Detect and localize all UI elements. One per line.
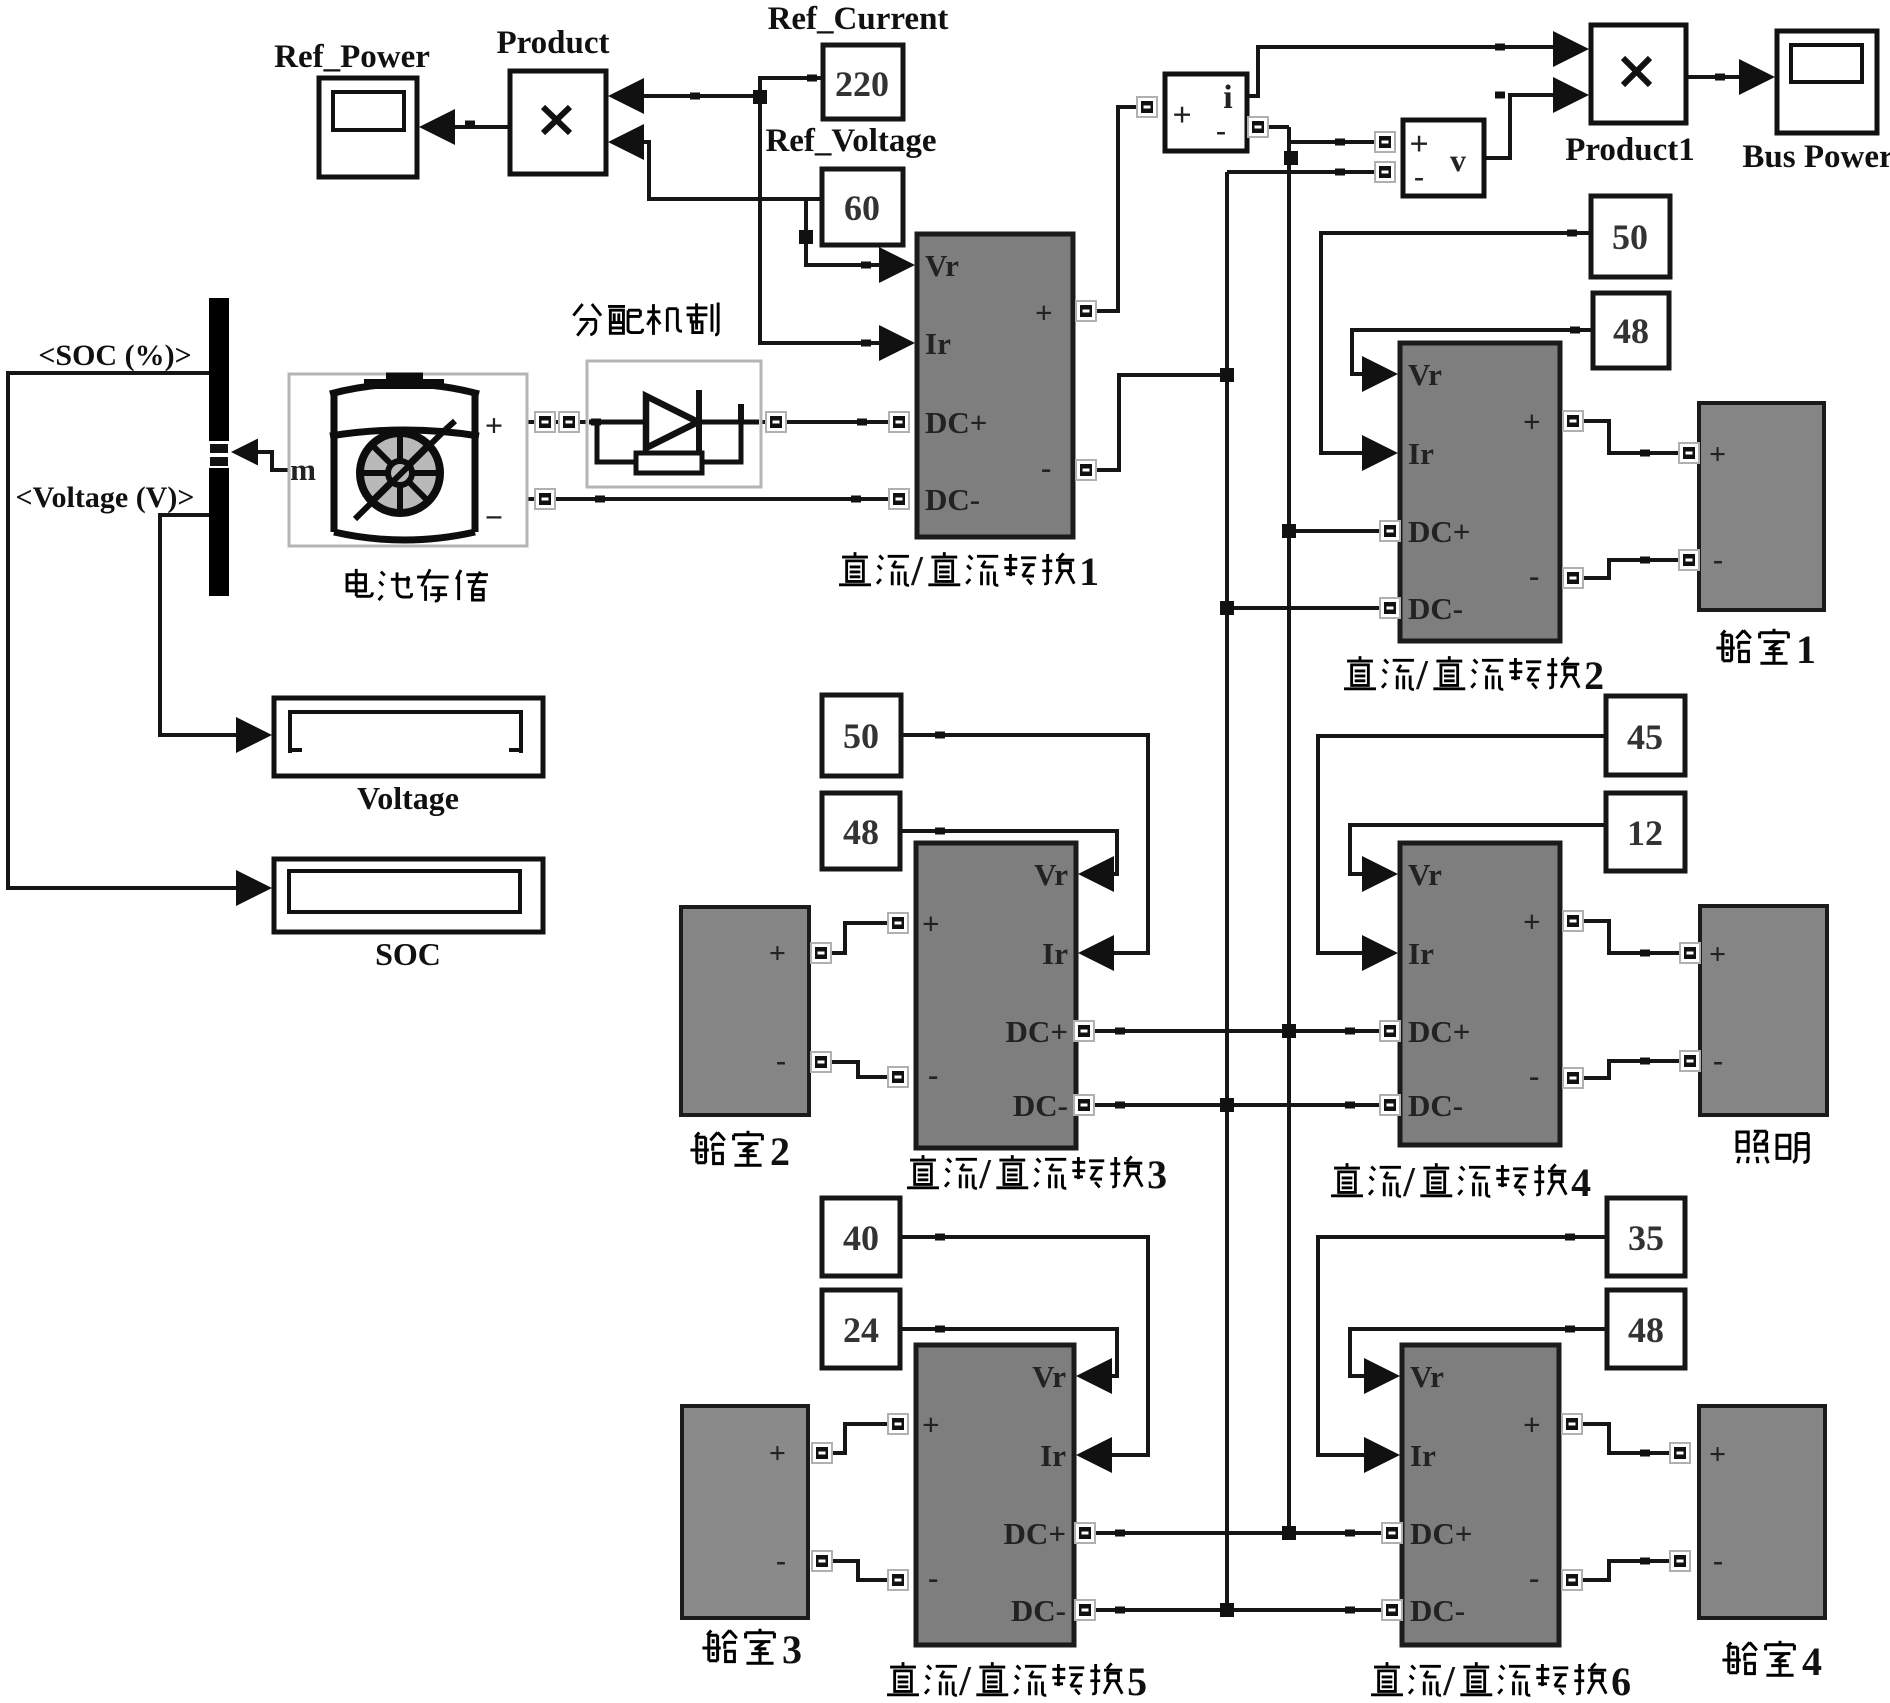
wire conv2 + to cabin1: [1581, 421, 1681, 453]
svg-text:-: -: [1041, 450, 1051, 485]
svg-text:DC+: DC+: [1408, 1014, 1470, 1049]
svg-text:DC-: DC-: [1408, 591, 1463, 626]
cabin4 pin labels: [1709, 1438, 1726, 1577]
svg-text:/: /: [910, 549, 924, 595]
wire Product output to Ref_Power scope: [448, 125, 510, 129]
wire branch junction to Product top input: [634, 94, 760, 98]
svg-text:-: -: [928, 1560, 938, 1595]
svg-text:i: i: [1223, 79, 1232, 116]
svg-text:m: m: [290, 452, 316, 487]
svg-text:60: 60: [844, 188, 880, 228]
wire tick: [1115, 1028, 1125, 1035]
junction 220 wire to Product: [753, 90, 767, 104]
label cabin4 舱室4: [1722, 1639, 1822, 1684]
bus2 vertical DC+ bus: [1287, 127, 1291, 1533]
junction conv1 minus on bus1: [1220, 368, 1234, 382]
wire i output to Product1 top input: [1247, 47, 1557, 96]
label dcdc5 直流/直流转换5: [887, 1659, 1147, 1703]
port conv3 plus in: [888, 913, 908, 933]
constant 60 Ref_Voltage: [822, 169, 903, 245]
wire tick: [1565, 1326, 1575, 1333]
port cabin3 plus: [812, 1443, 832, 1463]
constant 48 bottom: [1607, 1290, 1685, 1368]
wire v output to Product1 bottom input: [1484, 95, 1557, 158]
constant 50 right: [1591, 196, 1670, 277]
svg-text:-: -: [1529, 1560, 1539, 1595]
wire battery plus to distribution block: [527, 420, 587, 424]
svg-text:+: +: [1035, 295, 1053, 330]
converter block conv6: [1402, 1345, 1559, 1645]
label cabin2 舱室2: [690, 1129, 790, 1174]
wire tick: [1715, 74, 1725, 81]
svg-text:DC-: DC-: [1408, 1088, 1463, 1123]
voltage sensor v: [1403, 120, 1484, 196]
wire bus2 to v plus: [1289, 140, 1377, 144]
wire tick: [1115, 1530, 1125, 1537]
wire tick: [1115, 1607, 1125, 1614]
svg-text:5: 5: [1127, 1659, 1147, 1703]
load block lighting: [1700, 906, 1827, 1115]
wire 12 to conv4 Vr: [1350, 825, 1606, 874]
port conv2 DC-: [1380, 598, 1400, 618]
junction bus1 bottom DC-: [1220, 1603, 1234, 1617]
svg-text:DC+: DC+: [1006, 1014, 1068, 1049]
distribution block outer frame: [587, 361, 761, 487]
svg-text:DC-: DC-: [1410, 1593, 1465, 1628]
arrow conv5 Ir input: [1076, 1437, 1112, 1473]
svg-text:Vr: Vr: [1032, 1359, 1066, 1394]
svg-text:-: -: [1713, 1044, 1723, 1077]
port conv5 minus in: [888, 1570, 908, 1590]
wire tick: [935, 828, 945, 835]
junction bus1 mid DC-: [1220, 1098, 1234, 1112]
arrow conv5 Vr input: [1076, 1358, 1112, 1394]
port conv3 DC+: [1074, 1021, 1094, 1041]
svg-text:Voltage: Voltage: [357, 780, 459, 816]
svg-text:220: 220: [835, 64, 889, 104]
arrow into Bus Power scope: [1739, 59, 1775, 95]
diode and resistor inside distribution block: [589, 390, 759, 473]
constant 12: [1606, 793, 1685, 871]
wire tick: [1565, 1234, 1575, 1241]
port cabin4 minus: [1670, 1551, 1690, 1571]
svg-text:1: 1: [1079, 549, 1099, 594]
wire tick: [935, 1234, 945, 1241]
svg-text:DC-: DC-: [1011, 1593, 1066, 1628]
svg-text:Ir: Ir: [1408, 936, 1434, 971]
constant 40: [822, 1198, 900, 1276]
label lighting 照明: [1737, 1131, 1808, 1163]
wire tick: [465, 121, 475, 128]
wire tick: [1567, 230, 1577, 237]
svg-text:-: -: [776, 1544, 786, 1577]
wire 60 branch down to conv1 Vr: [806, 199, 885, 265]
wire 48b to conv6 Vr: [1350, 1329, 1607, 1376]
constant 24: [822, 1290, 900, 1368]
load block cabin3: [682, 1406, 808, 1618]
port v sensor minus: [1375, 162, 1395, 182]
conv2 pin labels: [1408, 357, 1541, 626]
junction bus2 near v plus: [1284, 151, 1298, 165]
wire Product bottom input from 60: [634, 142, 822, 199]
svg-text:48: 48: [843, 812, 879, 852]
svg-text:35: 35: [1628, 1218, 1664, 1258]
svg-text:6: 6: [1611, 1659, 1631, 1703]
wire cabin2 - to conv3 -: [829, 1062, 890, 1077]
bus selector bar: [208, 298, 230, 596]
svg-text:v: v: [1450, 142, 1466, 178]
svg-text:48: 48: [1628, 1310, 1664, 1350]
arrow conv6 Vr input: [1364, 1358, 1400, 1394]
wire tick: [1335, 169, 1345, 176]
svg-text:-: -: [1713, 1544, 1723, 1577]
conv6 pin labels: [1410, 1359, 1541, 1628]
arrow into Voltage display: [236, 717, 272, 753]
svg-text:+: +: [1709, 438, 1726, 471]
wire tick: [851, 496, 861, 503]
svg-text:/: /: [958, 1659, 972, 1703]
wire tick: [861, 340, 871, 347]
port conv1 DC+: [889, 412, 909, 432]
svg-text:-: -: [1529, 1058, 1539, 1093]
wire 48 mid to conv3 Vr: [900, 831, 1117, 874]
svg-text:Ir: Ir: [1040, 1438, 1066, 1473]
svg-text:4: 4: [1571, 1160, 1591, 1205]
svg-text:/: /: [1442, 1659, 1456, 1703]
svg-text:48: 48: [1613, 311, 1649, 351]
wire 35 to conv6 Ir: [1318, 1237, 1607, 1455]
port conv1 plus out: [1076, 301, 1096, 321]
svg-text:50: 50: [843, 716, 879, 756]
arrow conv3 Ir input: [1078, 935, 1114, 971]
converter block conv3: [916, 843, 1076, 1148]
constant 50 mid: [822, 695, 901, 776]
wire bus2 to conv2 DC+: [1289, 529, 1382, 533]
wire 50 to conv2 Ir: [1321, 233, 1591, 453]
label battery storage 电池存储: [347, 569, 488, 601]
label dcdc1 直流/直流转换1: [839, 549, 1099, 595]
constant 48 mid: [822, 793, 900, 869]
svg-text:/: /: [1415, 653, 1429, 699]
arrow conv2 Vr input: [1362, 356, 1398, 392]
wire conv6 - to cabin4: [1580, 1561, 1672, 1580]
bus1 vertical DC- bus: [1225, 172, 1229, 1610]
arrow Product1 top input: [1553, 31, 1589, 67]
svg-text:2: 2: [1584, 653, 1604, 698]
wire tick: [595, 496, 605, 503]
svg-text:Ref_Voltage: Ref_Voltage: [765, 123, 936, 159]
svg-text:Product1: Product1: [1565, 132, 1695, 168]
wire tick: [1495, 44, 1505, 51]
svg-text:Vr: Vr: [925, 248, 959, 283]
arrow Product1 bottom input: [1553, 77, 1589, 113]
port conv2 minus out: [1563, 568, 1583, 588]
svg-text:+: +: [1709, 938, 1726, 971]
svg-text:Ir: Ir: [1410, 1438, 1436, 1473]
svg-text:3: 3: [782, 1627, 802, 1672]
wire tick: [1345, 1607, 1355, 1614]
scope Ref_Power: [319, 78, 417, 177]
load block cabin1: [1699, 403, 1824, 610]
cabin3 pin labels: [769, 1437, 786, 1577]
port conv4 minus out: [1563, 1068, 1583, 1088]
svg-text:Vr: Vr: [1410, 1359, 1444, 1394]
wire tick: [1640, 557, 1650, 564]
port conv1 minus out: [1076, 460, 1096, 480]
arrow conv3 Vr input: [1078, 856, 1114, 892]
arrow Product bottom input: [608, 124, 644, 160]
svg-text:/: /: [978, 1152, 992, 1198]
label distribution 分配机制: [573, 303, 718, 336]
wire tick: [1640, 450, 1650, 457]
port conv5 plus in: [888, 1414, 908, 1434]
svg-text:Ref_Current: Ref_Current: [768, 1, 949, 37]
junction bus1 conv2 DC-: [1220, 601, 1234, 615]
wire tick: [591, 419, 601, 426]
load block cabin2: [681, 907, 809, 1115]
port v sensor plus: [1375, 132, 1395, 152]
wire tick: [1640, 1058, 1650, 1065]
converter block conv1: [917, 234, 1073, 537]
svg-text:<SOC (%)>: <SOC (%)>: [38, 339, 191, 372]
svg-text:+: +: [1709, 1438, 1726, 1471]
product block Product: [510, 71, 606, 174]
arrow into Ref_Power scope: [419, 109, 455, 145]
wire cabin3 - to conv5 -: [830, 1561, 890, 1580]
svg-text:+: +: [1523, 404, 1541, 439]
wire conv1 + output up to i sensor: [1094, 107, 1150, 311]
svg-text:-: -: [1216, 114, 1226, 147]
product block Product1: [1591, 25, 1686, 123]
wire cabin3 + to conv5 +: [830, 1424, 890, 1453]
wire conv4 - to lighting: [1581, 1061, 1682, 1078]
svg-text:-: -: [928, 1057, 938, 1092]
port conv4 plus out: [1563, 911, 1583, 931]
svg-text:DC+: DC+: [1410, 1516, 1472, 1551]
svg-text:+: +: [1523, 1407, 1541, 1442]
svg-text:-: -: [776, 1044, 786, 1077]
port conv5 DC+: [1075, 1523, 1095, 1543]
wire tick: [1640, 1558, 1650, 1565]
wire tick: [1345, 1102, 1355, 1109]
conv1 pin labels: [925, 248, 1053, 517]
wire conv5 DC+ to conv6 DC+: [1093, 1531, 1384, 1535]
port i sensor input: [1137, 97, 1157, 117]
svg-text:Product: Product: [496, 25, 609, 61]
svg-text:/: /: [1402, 1160, 1416, 1206]
conv3 pin labels: [922, 857, 1068, 1123]
svg-text:−: −: [485, 499, 503, 535]
svg-text:Ir: Ir: [1408, 436, 1434, 471]
wire conv1 - output to bus1: [1094, 375, 1227, 470]
svg-text:DC-: DC-: [1013, 1088, 1068, 1123]
port conv5 DC-: [1075, 1600, 1095, 1620]
port i sensor minus out: [1248, 117, 1268, 137]
wire tick: [935, 1326, 945, 1333]
svg-text:+: +: [769, 1437, 786, 1470]
port conv1 DC-: [889, 489, 909, 509]
wire tick: [1640, 1450, 1650, 1457]
junction bus2 bottom DC+: [1282, 1526, 1296, 1540]
svg-text:SOC: SOC: [375, 936, 441, 972]
wire 45 to conv4 Ir: [1318, 736, 1606, 953]
svg-text:1: 1: [1796, 627, 1816, 672]
wire conv6 + to cabin4: [1580, 1424, 1672, 1453]
port cabin2 minus: [811, 1052, 831, 1072]
svg-text:2: 2: [770, 1129, 790, 1174]
svg-text:3: 3: [1147, 1152, 1167, 1197]
svg-text:+: +: [1523, 904, 1541, 939]
wire bus selector SOC output to SOC display: [8, 373, 241, 888]
wire 220 to Product top input and down to conv1 Ir: [760, 78, 885, 343]
wire conv4 + to lighting: [1581, 921, 1682, 953]
svg-text:40: 40: [843, 1218, 879, 1258]
port conv4 DC-: [1380, 1095, 1400, 1115]
display block Voltage: [274, 698, 543, 776]
port lighting minus: [1680, 1051, 1700, 1071]
svg-text:Vr: Vr: [1034, 857, 1068, 892]
converter block conv5: [916, 1345, 1074, 1645]
wire conv2 - to cabin1: [1581, 560, 1681, 578]
wire tick: [1115, 1102, 1125, 1109]
wire battery m zigzag to bus selector: [258, 452, 289, 470]
arrow Product top input: [608, 78, 644, 114]
wire bus selector Voltage output to Voltage display: [160, 515, 241, 735]
wire conv3 DC+ to conv4 DC+: [1092, 1029, 1382, 1033]
wire bus1 to v minus: [1227, 170, 1377, 174]
conv5 pin labels: [922, 1359, 1066, 1628]
port conv6 plus out: [1562, 1414, 1582, 1434]
arrow conv2 Ir input: [1362, 435, 1398, 471]
battery icon: [330, 377, 479, 540]
port battery plus: [535, 412, 555, 432]
constant 45: [1606, 696, 1685, 775]
wire tick: [1495, 92, 1505, 99]
port conv2 plus out: [1563, 411, 1583, 431]
svg-text:Ref_Power: Ref_Power: [274, 39, 430, 75]
wire conv3 DC- to conv4 DC-: [1092, 1103, 1382, 1107]
port conv4 DC+: [1380, 1021, 1400, 1041]
port cabin1 minus: [1679, 550, 1699, 570]
wire tick: [1335, 139, 1345, 146]
wire tick: [1640, 950, 1650, 957]
wire tick: [935, 732, 945, 739]
port conv2 DC+: [1380, 521, 1400, 541]
svg-text:24: 24: [843, 1310, 879, 1350]
wire cabin2 + to conv3 +: [829, 923, 890, 953]
svg-text:12: 12: [1627, 813, 1663, 853]
label cabin3 舱室3: [702, 1627, 802, 1672]
port distribution output: [766, 412, 786, 432]
svg-text:45: 45: [1627, 717, 1663, 757]
svg-text:50: 50: [1612, 217, 1648, 257]
wire tick: [1345, 1028, 1355, 1035]
arrow into SOC display: [236, 870, 272, 906]
svg-text:+: +: [1409, 126, 1428, 163]
load block cabin4: [1699, 1406, 1825, 1618]
wire tick: [861, 262, 871, 269]
wire bus1 to conv2 DC-: [1227, 606, 1382, 610]
arrow conv1 Vr input: [879, 247, 915, 283]
svg-text:DC+: DC+: [925, 405, 987, 440]
label dcdc4 直流/直流转换4: [1331, 1160, 1591, 1206]
svg-text:+: +: [769, 937, 786, 970]
junction 60 wire branch: [799, 230, 813, 244]
label dcdc3 直流/直流转换3: [907, 1152, 1167, 1198]
svg-text:Bus Power: Bus Power: [1742, 139, 1890, 175]
port cabin2 plus: [811, 943, 831, 963]
display block SOC: [274, 859, 543, 932]
label dcdc2 直流/直流转换2: [1344, 653, 1604, 699]
wire 48 to conv2 Vr: [1352, 330, 1593, 374]
wire conv5 DC- to conv6 DC-: [1093, 1608, 1384, 1612]
wire tick: [1570, 327, 1580, 334]
wire tick: [857, 419, 867, 426]
wire tick: [690, 93, 700, 100]
svg-text:Ir: Ir: [925, 326, 951, 361]
wire tick: [807, 75, 817, 82]
svg-text:4: 4: [1802, 1639, 1822, 1684]
port conv6 DC-: [1382, 1600, 1402, 1620]
junction bus2 mid DC+: [1282, 1024, 1296, 1038]
svg-text:Vr: Vr: [1408, 857, 1442, 892]
port battery minus: [535, 489, 555, 509]
arrow conv4 Vr input: [1362, 856, 1398, 892]
svg-text:<Voltage (V)>: <Voltage (V)>: [16, 481, 195, 514]
constant 220 Ref_Current: [823, 45, 903, 119]
wire distribution output to conv1 DC+: [761, 420, 892, 424]
wire i minus output to bus2: [1266, 125, 1289, 129]
wire 24 to conv5 Vr: [900, 1329, 1117, 1376]
converter block conv2: [1400, 343, 1560, 641]
wire Product1 output to Bus Power: [1686, 75, 1743, 79]
converter block conv4: [1400, 843, 1560, 1145]
svg-text:+: +: [922, 1407, 940, 1442]
scope Bus Power: [1777, 31, 1877, 133]
port cabin3 minus: [812, 1551, 832, 1571]
constant 48 right: [1593, 293, 1669, 368]
svg-text:DC+: DC+: [1004, 1516, 1066, 1551]
junction bus2 conv2 DC+: [1282, 524, 1296, 538]
label dcdc6 直流/直流转换6: [1371, 1659, 1631, 1703]
svg-text:DC-: DC-: [925, 482, 980, 517]
arrow conv6 Ir input: [1364, 1437, 1400, 1473]
svg-text:-: -: [1414, 160, 1424, 193]
port cabin1 plus: [1679, 443, 1699, 463]
wire 40 to conv5 Ir: [900, 1237, 1148, 1455]
svg-text:+: +: [1172, 97, 1191, 134]
svg-text:-: -: [1529, 558, 1539, 593]
current sensor i: [1165, 74, 1247, 151]
battery block outer frame: [289, 374, 527, 546]
svg-text:-: -: [1713, 543, 1723, 576]
port conv6 minus out: [1562, 1570, 1582, 1590]
port lighting plus: [1680, 943, 1700, 963]
port distribution input: [559, 412, 579, 432]
label cabin1 舱室1: [1716, 627, 1816, 672]
cabin1 pin labels: [1709, 438, 1726, 576]
arrow conv4 Ir input: [1362, 935, 1398, 971]
cabin2 pin labels: [769, 937, 786, 1077]
port conv3 minus in: [888, 1067, 908, 1087]
svg-text:DC+: DC+: [1408, 514, 1470, 549]
svg-text:Vr: Vr: [1408, 357, 1442, 392]
arrow conv1 Ir input: [879, 325, 915, 361]
lighting pin labels: [1709, 938, 1726, 1077]
conv4 pin labels: [1408, 857, 1541, 1123]
constant 35: [1607, 1198, 1685, 1276]
port conv3 DC-: [1074, 1095, 1094, 1115]
